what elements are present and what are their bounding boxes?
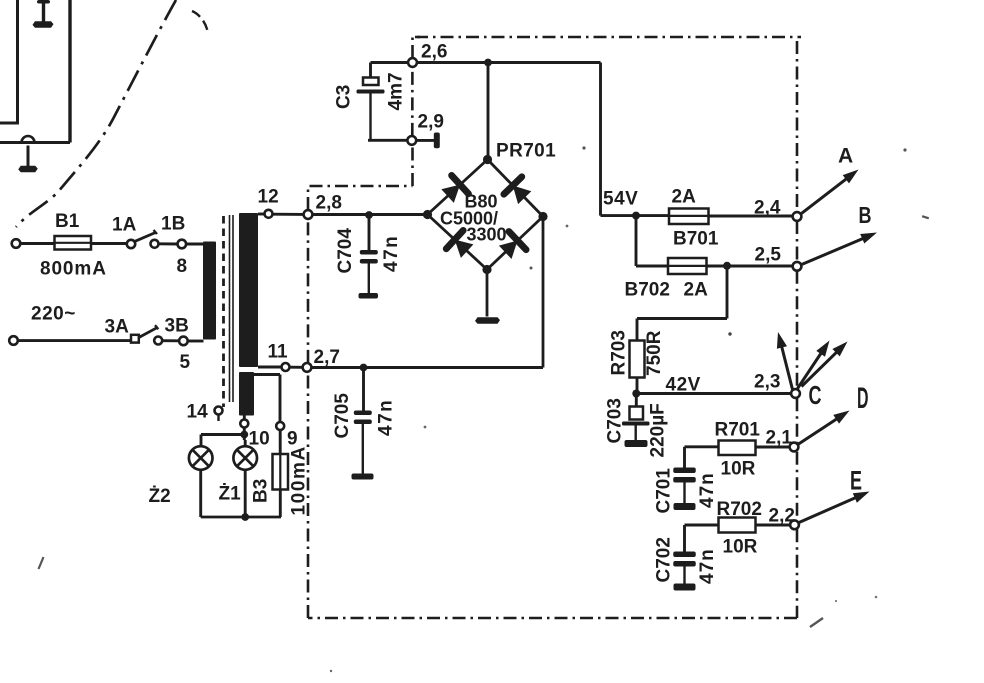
svg-text:1B: 1B (161, 214, 185, 235)
svg-text:3A: 3A (105, 317, 130, 338)
svg-text:220µF: 220µF (648, 403, 669, 457)
svg-text:2,4: 2,4 (754, 198, 781, 219)
svg-text:47n: 47n (697, 548, 718, 584)
svg-text:100mA: 100mA (289, 445, 310, 515)
svg-text:2,6: 2,6 (421, 42, 447, 63)
svg-text:PR701: PR701 (496, 141, 556, 162)
svg-text:4m7: 4m7 (386, 72, 407, 110)
svg-text:800mA: 800mA (40, 259, 107, 280)
svg-text:2,9: 2,9 (418, 112, 444, 133)
svg-text:Ż2: Ż2 (149, 486, 171, 507)
svg-text:B3: B3 (251, 479, 272, 503)
svg-text:14: 14 (187, 402, 209, 423)
svg-text:B1: B1 (55, 211, 80, 232)
svg-text:B702: B702 (625, 280, 670, 301)
svg-text:C: C (809, 380, 822, 410)
svg-text:E: E (850, 466, 862, 496)
svg-text:C3: C3 (334, 85, 355, 109)
svg-text:2,7: 2,7 (314, 347, 340, 368)
svg-text:1A: 1A (112, 215, 137, 236)
svg-text:2,8: 2,8 (316, 193, 342, 214)
svg-text:D: D (857, 382, 869, 415)
svg-text:C702: C702 (654, 537, 675, 582)
svg-text:54V: 54V (603, 189, 638, 210)
svg-text:10: 10 (249, 429, 270, 450)
svg-text:B701: B701 (673, 229, 719, 250)
svg-text:2,1: 2,1 (766, 428, 793, 449)
svg-text:3300: 3300 (467, 225, 507, 245)
svg-text:2A: 2A (684, 280, 709, 301)
svg-text:47n: 47n (697, 472, 718, 508)
svg-text:8: 8 (177, 256, 188, 277)
svg-text:750R: 750R (644, 330, 665, 376)
svg-text:R703: R703 (609, 330, 630, 375)
svg-text:R702: R702 (717, 499, 762, 520)
svg-text:11: 11 (268, 342, 289, 363)
svg-text:42V: 42V (666, 375, 701, 396)
svg-text:2A: 2A (672, 187, 697, 208)
svg-text:220~: 220~ (31, 304, 76, 325)
svg-text:B: B (859, 202, 872, 228)
svg-text:47n: 47n (376, 399, 397, 436)
svg-text:2,2: 2,2 (769, 506, 795, 527)
svg-text:3B: 3B (165, 316, 189, 337)
svg-text:C705: C705 (332, 393, 353, 439)
svg-text:C703: C703 (605, 398, 626, 443)
svg-text:47n: 47n (381, 235, 402, 272)
svg-text:10R: 10R (723, 537, 758, 558)
svg-text:C701: C701 (654, 468, 675, 514)
svg-text:10R: 10R (721, 459, 756, 480)
svg-text:12: 12 (258, 187, 279, 208)
svg-text:5: 5 (180, 352, 191, 373)
svg-text:2,3: 2,3 (754, 372, 780, 393)
svg-text:2,5: 2,5 (755, 245, 782, 266)
svg-text:C704: C704 (335, 228, 356, 274)
svg-text:A: A (838, 145, 853, 168)
svg-text:R701: R701 (715, 420, 761, 441)
svg-text:Ż1: Ż1 (219, 484, 242, 505)
